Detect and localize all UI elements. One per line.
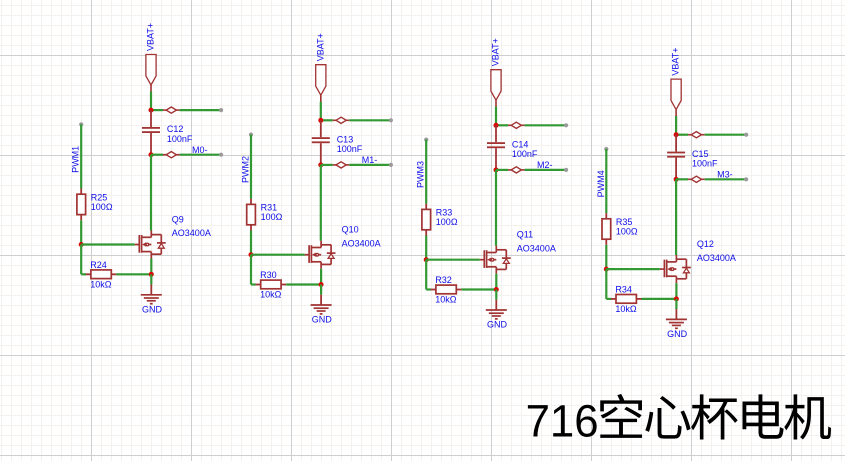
wire (251, 283, 256, 285)
junction node (drain/cap/port) (149, 108, 154, 113)
svg-text:GND: GND (667, 329, 688, 339)
junction node (gate) (249, 252, 254, 257)
unconnected end dot (564, 168, 568, 172)
power flag VBAT+ (Q9 block) (146, 23, 157, 92)
net port (diamond) bottom (508, 167, 525, 173)
unconnected end dot (744, 133, 748, 137)
wire (250, 135, 252, 199)
svg-text:PWM3: PWM3 (416, 161, 426, 188)
wire (320, 102, 322, 121)
svg-text:AO3400A: AO3400A (342, 238, 381, 248)
wire (675, 299, 677, 309)
wire (151, 154, 163, 156)
svg-text:M1-: M1- (362, 155, 378, 165)
svg-text:R31: R31 (261, 203, 278, 213)
unconnected end dot (219, 108, 223, 112)
junction node (gate) (604, 267, 609, 272)
unconnected end dot (744, 177, 748, 181)
power flag VBAT+ (Q11 block) (491, 38, 502, 107)
svg-text:R25: R25 (91, 192, 108, 202)
wire (642, 298, 677, 300)
wire (676, 178, 688, 180)
input pin PWM3 (416, 138, 429, 189)
wire (496, 169, 508, 171)
wire (705, 178, 747, 180)
svg-text:PWM2: PWM2 (241, 156, 251, 183)
junction node (source/R) (494, 287, 499, 292)
wire (gate) (81, 243, 135, 245)
ground GND (311, 295, 333, 325)
junction node (drain/cap/port) (494, 123, 499, 128)
net port (diamond) bottom (333, 162, 350, 168)
wire (80, 245, 82, 275)
net port (diamond) top (333, 117, 350, 123)
svg-text:100Ω: 100Ω (91, 202, 113, 212)
wire (80, 124, 82, 188)
wire (source) (320, 269, 322, 285)
capacitor C12 100nF (142, 110, 193, 155)
svg-text:VBAT+: VBAT+ (146, 23, 156, 51)
wire (116, 273, 151, 275)
svg-text:716: 716 (526, 395, 599, 446)
svg-text:PWM4: PWM4 (596, 170, 606, 197)
junction node (cap bottom/port) (494, 167, 499, 172)
junction node (gate) (424, 257, 429, 262)
input pin PWM2 (241, 133, 254, 184)
wire (605, 149, 607, 213)
junction node (gate) (79, 242, 84, 247)
wire (gate) (251, 254, 305, 256)
svg-text:AO3400A: AO3400A (697, 253, 736, 263)
svg-text:100nF: 100nF (337, 144, 363, 154)
resistor R25 100ohm (77, 189, 113, 221)
wire (426, 288, 431, 290)
unconnected end dot (219, 153, 223, 157)
junction node (drain/cap/port) (318, 118, 323, 123)
svg-text:100Ω: 100Ω (616, 227, 638, 237)
net port (diamond) top (163, 107, 180, 113)
svg-text:C12: C12 (167, 124, 184, 134)
ground GND (486, 300, 508, 330)
wire (321, 119, 333, 121)
wire (250, 231, 252, 255)
power flag VBAT+ (Q12 block) (671, 47, 682, 116)
wire (drain) (495, 170, 497, 246)
svg-text:GND: GND (142, 304, 163, 314)
title CJK glyph bei (691, 394, 738, 439)
power flag VBAT+ (Q10 block) (315, 33, 326, 102)
svg-text:100Ω: 100Ω (436, 217, 458, 227)
svg-text:100Ω: 100Ω (261, 212, 283, 222)
wire (606, 298, 611, 300)
resistor R32 10k (431, 275, 462, 304)
resistor R33 100ohm (422, 204, 458, 236)
transistor Q10 AO3400A (NMOS) (305, 225, 381, 269)
svg-text:M2-: M2- (537, 160, 553, 170)
net port (diamond) bottom (688, 176, 705, 182)
svg-text:R32: R32 (435, 275, 452, 285)
capacitor C14 100nF (487, 125, 538, 170)
capacitor C15 100nF (667, 135, 718, 180)
wire (425, 140, 427, 204)
wire (250, 255, 252, 285)
input pin PWM4 (596, 147, 609, 198)
svg-text:VBAT+: VBAT+ (491, 38, 501, 66)
wire (180, 154, 222, 156)
wire (321, 164, 333, 166)
svg-text:C13: C13 (337, 134, 354, 144)
svg-text:10kΩ: 10kΩ (260, 290, 282, 300)
net port (diamond) bottom (163, 152, 180, 158)
wire (150, 92, 152, 111)
transistor Q12 AO3400A (NMOS) (660, 239, 736, 283)
svg-text:C14: C14 (512, 139, 529, 149)
wire (605, 269, 607, 299)
wire (gate) (606, 268, 660, 270)
ground GND (666, 309, 688, 339)
svg-text:10kΩ: 10kΩ (90, 279, 112, 289)
net port (diamond) top (508, 122, 525, 128)
junction node (cap bottom/port) (149, 152, 154, 157)
wire (source) (150, 259, 152, 275)
wire (525, 169, 567, 171)
resistor R31 100ohm (247, 199, 283, 231)
junction node (source/R) (149, 272, 154, 277)
transistor Q11 AO3400A (NMOS) (480, 230, 556, 274)
svg-text:100nF: 100nF (167, 134, 193, 144)
resistor R34 10k (611, 285, 642, 314)
svg-text:R35: R35 (616, 217, 633, 227)
svg-text:R34: R34 (615, 285, 632, 295)
wire (80, 220, 82, 244)
wire (drain) (150, 155, 152, 231)
junction node (drain/cap/port) (674, 132, 679, 137)
svg-text:AO3400A: AO3400A (517, 243, 556, 253)
unconnected end dot (389, 118, 393, 122)
wire (676, 134, 688, 136)
junction node (cap bottom/port) (318, 162, 323, 167)
wire (150, 274, 152, 284)
svg-text:10kΩ: 10kΩ (615, 304, 637, 314)
wire (605, 245, 607, 269)
wire (source) (675, 283, 677, 299)
wire (gate) (426, 259, 480, 261)
wire (81, 273, 86, 275)
svg-text:VBAT+: VBAT+ (315, 33, 325, 61)
svg-text:VBAT+: VBAT+ (671, 47, 681, 75)
wire (425, 260, 427, 290)
wire (675, 116, 677, 135)
junction node (cap bottom/port) (674, 177, 679, 182)
resistor R30 10k (256, 270, 287, 299)
input pin PWM1 (71, 122, 84, 173)
svg-text:Q12: Q12 (697, 239, 714, 249)
svg-text:100nF: 100nF (692, 158, 718, 168)
wire (525, 124, 567, 126)
wire (151, 109, 163, 111)
svg-text:M3-: M3- (717, 170, 733, 180)
unconnected end dot (389, 163, 393, 167)
unconnected end dot (564, 123, 568, 127)
svg-text:Q9: Q9 (172, 215, 184, 225)
title CJK glyph kong (600, 394, 642, 438)
svg-text:M0-: M0- (192, 145, 208, 155)
svg-text:10kΩ: 10kΩ (435, 295, 457, 305)
title CJK glyph dian (742, 394, 783, 438)
svg-text:R30: R30 (260, 270, 277, 280)
capacitor C13 100nF (312, 120, 363, 165)
resistor R35 100ohm (602, 213, 638, 245)
wire (286, 283, 321, 285)
title CJK glyph ji (784, 394, 831, 439)
wire (drain) (675, 179, 677, 255)
wire (349, 119, 391, 121)
wire (461, 288, 496, 290)
ground GND (141, 285, 163, 315)
title CJK glyph xin (645, 396, 690, 439)
junction node (source/R) (319, 282, 324, 287)
junction node (source/R) (674, 296, 679, 301)
svg-text:C15: C15 (692, 149, 709, 159)
wire (705, 134, 747, 136)
svg-text:AO3400A: AO3400A (172, 228, 211, 238)
wire (349, 164, 391, 166)
svg-text:Q11: Q11 (517, 230, 533, 240)
svg-text:GND: GND (312, 315, 333, 325)
wire (495, 107, 497, 126)
transistor Q9 AO3400A (NMOS) (135, 215, 211, 259)
wire (drain) (320, 165, 322, 241)
wire (320, 285, 322, 295)
wire (180, 109, 222, 111)
svg-text:R33: R33 (436, 208, 453, 218)
wire (496, 124, 508, 126)
wire (495, 290, 497, 300)
svg-text:100nF: 100nF (512, 149, 538, 159)
svg-text:Q10: Q10 (342, 225, 359, 235)
wire (425, 236, 427, 260)
net port (diamond) top (688, 132, 705, 138)
resistor R24 10k (86, 260, 117, 289)
svg-text:R24: R24 (90, 260, 107, 270)
wire (source) (495, 274, 497, 290)
svg-text:GND: GND (487, 320, 508, 330)
svg-text:PWM1: PWM1 (71, 146, 81, 173)
